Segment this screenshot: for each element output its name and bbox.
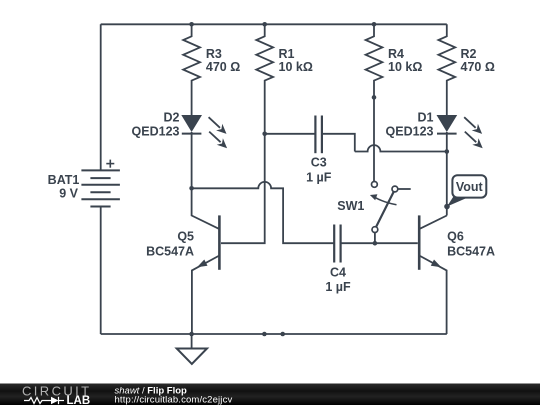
svg-text:C3: C3 <box>311 156 327 170</box>
svg-text:http://circuitlab.com/c2ejjcv: http://circuitlab.com/c2ejjcv <box>115 395 233 405</box>
svg-text:10 kΩ: 10 kΩ <box>279 60 313 74</box>
resistor R4 <box>366 24 383 181</box>
ground <box>177 334 207 364</box>
svg-text:D2: D2 <box>164 111 180 125</box>
svg-text:SW1: SW1 <box>337 199 364 213</box>
diode D2 (LED) <box>181 115 227 188</box>
node: R4 wire segment junction <box>372 95 377 100</box>
node: C3 left / R1 wire junction <box>262 132 267 137</box>
svg-text:470 Ω: 470 Ω <box>206 60 240 74</box>
resistor R1 <box>221 24 273 243</box>
svg-text:470 Ω: 470 Ω <box>461 60 495 74</box>
svg-text:1 µF: 1 µF <box>325 280 351 294</box>
Vout net flag <box>447 175 486 206</box>
svg-text:R1: R1 <box>279 47 295 61</box>
svg-text:R4: R4 <box>388 47 404 61</box>
svg-text:Q6: Q6 <box>447 230 464 244</box>
svg-text:Q5: Q5 <box>177 230 194 244</box>
svg-text:R2: R2 <box>461 47 477 61</box>
node: ground rail segment junction 1 <box>262 332 267 337</box>
footer logo resistor-diode art <box>24 397 64 404</box>
capacitor C4 <box>334 225 418 263</box>
node: C3 right / D1 cathode junction <box>445 149 450 154</box>
svg-text:Vout: Vout <box>456 180 484 194</box>
wire left rail bottom (battery - to ground rail) <box>100 207 102 335</box>
switch SW1 <box>370 182 411 244</box>
node: ground rail segment junction 2 <box>280 332 285 337</box>
svg-text:9 V: 9 V <box>59 187 78 201</box>
node: SW1 bottom / C4-Q6 base junction <box>373 241 378 246</box>
svg-text:BC547A: BC547A <box>447 244 495 258</box>
svg-text:QED123: QED123 <box>132 124 180 138</box>
node: ground rail / Q5 emitter junction <box>189 332 194 337</box>
transistor Q5 <box>192 188 220 334</box>
wire C3 to D1 cathode with hop over R4 wire <box>355 145 447 151</box>
svg-text:QED123: QED123 <box>386 124 434 138</box>
wire top rail <box>101 23 447 25</box>
battery plus sign <box>106 160 114 168</box>
node: top rail / R3 junction <box>189 22 194 27</box>
diode D1 (LED) <box>437 115 483 216</box>
svg-text:1 µF: 1 µF <box>306 171 332 185</box>
node: Vout attachment on Q6 collector <box>444 204 450 210</box>
node: D2 anode / Q5 collector junction <box>189 186 194 191</box>
svg-text:C4: C4 <box>330 266 346 280</box>
svg-text:LAB: LAB <box>67 395 91 405</box>
node: top rail / R1 junction <box>262 22 267 27</box>
resistor R3 <box>183 24 200 115</box>
resistor R2 <box>438 24 455 115</box>
transistor Q6 <box>419 215 447 334</box>
svg-text:BC547A: BC547A <box>146 244 194 258</box>
svg-text:R3: R3 <box>206 47 222 61</box>
capacitor C3 <box>265 116 355 154</box>
svg-text:10 kΩ: 10 kΩ <box>388 60 422 74</box>
wire Q5 collector node to cross wire with hop over R1 wire <box>192 182 335 243</box>
wire bottom rail <box>101 333 447 335</box>
node: top rail / R4 junction <box>372 22 377 27</box>
wire left rail top (battery + to rail) <box>100 24 102 170</box>
battery BAT1 <box>81 170 120 206</box>
svg-text:D1: D1 <box>418 111 434 125</box>
svg-text:BAT1: BAT1 <box>48 173 80 187</box>
